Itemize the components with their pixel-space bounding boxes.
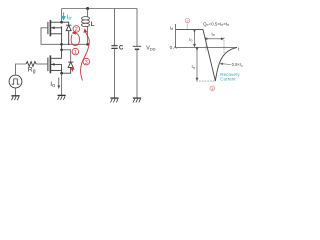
ground (Q2 source)	[58, 95, 66, 99]
node switch node (upper)	[60, 43, 63, 46]
inductor L	[86, 7, 89, 10]
annotation red arrow on lower diode	[72, 68, 74, 72]
annotation Io double arrow	[194, 31, 196, 46]
annotation Irr double arrow	[196, 49, 198, 79]
svg-text:0 A: 0 A	[170, 45, 178, 51]
ground (VDD)	[133, 98, 141, 102]
node lower diode junction	[60, 48, 63, 51]
wire pulse to ground	[15, 88, 17, 96]
svg-text:L: L	[91, 21, 95, 28]
transistor Q2 (lower MOSFET)	[48, 55, 62, 75]
svg-text:Irr: Irr	[67, 14, 73, 22]
wire source to ground	[61, 73, 63, 95]
svg-text:0.9×Irr: 0.9×Irr	[232, 62, 244, 68]
svg-text:Qrr=0.5×Irr×trr: Qrr=0.5×Irr×trr	[203, 22, 230, 28]
svg-text:1: 1	[74, 50, 77, 56]
wire pulse to resistor	[16, 64, 27, 75]
wire Q1 gate-source loop	[41, 28, 62, 45]
svg-text:trr: trr	[212, 31, 216, 37]
annotation red circled 3	[83, 58, 90, 66]
pulse source V1	[9, 75, 22, 88]
svg-text:Io: Io	[189, 37, 192, 43]
curve waveform	[176, 30, 237, 81]
annotation Irr level dashed line	[196, 80, 215, 82]
annotation red sweep arrow (recovery path)	[81, 30, 90, 80]
svg-text:Current: Current	[220, 77, 236, 82]
svg-text:2: 2	[75, 27, 78, 33]
wire switch node to inductor	[62, 43, 88, 45]
battery VDD	[136, 9, 138, 47]
node drain/diode junction	[60, 21, 63, 24]
ground (C)	[110, 98, 118, 102]
resistor Rg	[26, 62, 36, 67]
annotation 0.9 Irr pointer	[221, 63, 231, 66]
svg-text:Irr: Irr	[192, 64, 196, 70]
annotation red circled 1	[72, 48, 79, 56]
svg-text:3: 3	[85, 60, 88, 66]
wire upper drain vertical	[61, 9, 63, 24]
graph x-axis (0A line)	[176, 46, 237, 48]
annotation trr double arrow	[207, 38, 223, 40]
graph y-axis	[175, 24, 177, 47]
node inductor bottom	[86, 43, 89, 46]
annotation red circled 2	[73, 26, 80, 33]
annotation red circled 3 (graph)	[210, 86, 215, 91]
annotation red loop arrow (2)	[71, 33, 79, 46]
svg-text:t: t	[238, 46, 240, 52]
transistor Q1 body arrow	[51, 26, 54, 29]
svg-text:Io: Io	[50, 81, 55, 89]
diode D2 (body diode of Q2)	[62, 62, 74, 73]
annotation trr dashed markers	[205, 37, 207, 51]
capacitor C	[114, 9, 116, 46]
annotation Irr (cyan)	[63, 12, 65, 18]
wire lower diode top branch	[62, 50, 71, 62]
diode D1 (body diode of Q1)	[62, 22, 72, 44]
node source junction	[60, 72, 63, 75]
ground (pulse source)	[11, 96, 19, 100]
wire top rail	[62, 8, 137, 10]
node diode anode junction	[68, 43, 70, 45]
annotation Io arrow	[58, 78, 60, 88]
annotation leader tick under circled 2	[186, 24, 188, 29]
wire resistor to gate	[36, 63, 48, 65]
transistor Q2 body arrow	[51, 63, 54, 66]
svg-text:Id: Id	[170, 25, 173, 31]
svg-text:Rg: Rg	[28, 67, 36, 75]
transistor Q1 (upper MOSFET, gate tied to source)	[48, 20, 62, 58]
svg-text:VDD: VDD	[146, 46, 155, 52]
svg-text:C: C	[119, 45, 124, 52]
annotation red circled 2 (graph)	[185, 18, 190, 23]
